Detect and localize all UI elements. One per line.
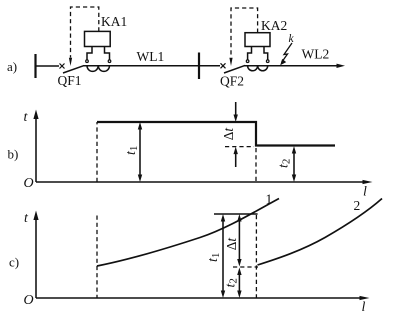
svg-text:WL2: WL2 xyxy=(302,47,330,62)
svg-text:a): a) xyxy=(7,59,17,74)
svg-text:t2: t2 xyxy=(224,278,240,287)
svg-text:WL1: WL1 xyxy=(137,49,165,64)
svg-text:QF1: QF1 xyxy=(58,73,82,88)
svg-text:Δt: Δt xyxy=(224,237,239,251)
svg-text:KA1: KA1 xyxy=(101,14,127,29)
svg-text:t: t xyxy=(24,110,29,125)
svg-text:1: 1 xyxy=(266,192,273,207)
svg-text:O: O xyxy=(24,293,34,308)
svg-text:t1: t1 xyxy=(124,146,140,155)
svg-text:b): b) xyxy=(8,147,19,162)
svg-text:QF2: QF2 xyxy=(220,74,244,89)
svg-text:l: l xyxy=(362,300,366,315)
svg-text:KA2: KA2 xyxy=(261,18,287,33)
svg-text:c): c) xyxy=(9,255,19,270)
svg-text:t1: t1 xyxy=(206,253,222,262)
svg-text:l: l xyxy=(363,185,367,200)
svg-text:t2: t2 xyxy=(277,159,293,168)
svg-text:O: O xyxy=(24,176,34,191)
svg-text:k: k xyxy=(289,33,295,45)
svg-text:t: t xyxy=(24,211,29,226)
svg-text:Δt: Δt xyxy=(221,127,236,141)
svg-text:2: 2 xyxy=(354,198,361,213)
